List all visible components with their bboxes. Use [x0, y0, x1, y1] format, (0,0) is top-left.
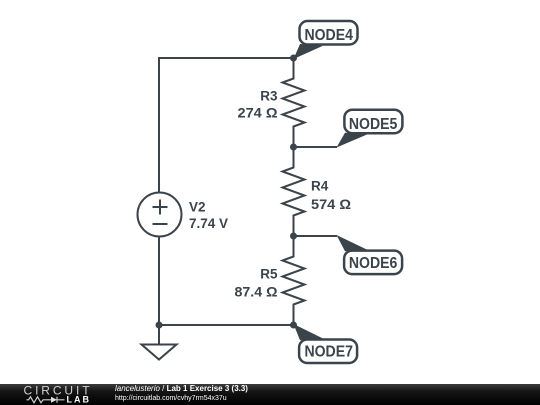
label V2 7.74 V — [189, 200, 228, 232]
junction dot at ground node — [156, 322, 163, 329]
svg-text:V2: V2 — [189, 200, 206, 215]
wire: V2 bottom to ground junction — [158, 237, 160, 325]
logo schematic glyph (resistor + diode) — [27, 397, 65, 403]
svg-text:274 Ω: 274 Ω — [238, 106, 278, 121]
svg-text:87.4 Ω: 87.4 Ω — [235, 285, 278, 300]
svg-text:lancelusterio / Lab 1 Exercise: lancelusterio / Lab 1 Exercise 3 (3.3) — [115, 384, 248, 393]
svg-text:NODE4: NODE4 — [304, 27, 353, 44]
flag NODE7 — [294, 324, 358, 363]
voltage source V2 — [138, 193, 182, 237]
node dot NODE5 — [290, 144, 297, 151]
svg-text:NODE6: NODE6 — [349, 255, 398, 272]
svg-text:http://circuitlab.com/cvhy7rm5: http://circuitlab.com/cvhy7rm54x37u — [115, 395, 227, 402]
svg-text:NODE7: NODE7 — [304, 344, 353, 361]
wire: bottom rail from junction to NODE7 — [159, 324, 294, 326]
wire: node to NODE6 callout — [294, 235, 338, 237]
label R4 574 Ω — [311, 179, 351, 213]
label R3 274 Ω — [238, 89, 278, 121]
flag NODE6 — [337, 235, 403, 274]
resistor R3 — [283, 58, 305, 147]
resistor R4 — [283, 147, 305, 236]
resistor R5 — [283, 236, 305, 325]
svg-text:NODE5: NODE5 — [349, 116, 398, 133]
svg-text:574 Ω: 574 Ω — [311, 197, 351, 212]
wire: top rail from V2 top to NODE4 — [159, 58, 294, 193]
svg-text:R4: R4 — [311, 179, 329, 194]
svg-text:7.74 V: 7.74 V — [189, 216, 228, 231]
wire: node to NODE5 callout — [294, 146, 338, 148]
flag NODE5 — [337, 110, 403, 148]
svg-text:R3: R3 — [260, 89, 278, 104]
svg-text:LAB: LAB — [67, 395, 92, 405]
svg-text:R5: R5 — [260, 267, 278, 282]
node dot NODE6 — [290, 233, 297, 240]
label R5 87.4 Ω — [235, 267, 278, 300]
flag NODE4 — [294, 21, 358, 59]
node dot NODE7 — [290, 322, 297, 329]
ground — [142, 325, 177, 360]
node dot NODE4 — [290, 55, 297, 62]
